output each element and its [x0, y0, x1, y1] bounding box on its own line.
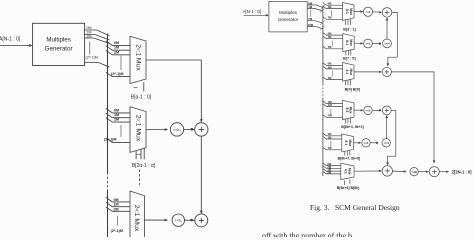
adder C — [382, 67, 391, 76]
svg-text:B[3 : 1]: B[3 : 1] — [343, 28, 356, 32]
mux B selects — [346, 50, 351, 56]
svg-text:<<1: <<1 — [363, 141, 369, 145]
wire mux D out — [354, 109, 362, 111]
wire mux C out to adder C — [354, 71, 380, 73]
svg-text:<<1: <<1 — [365, 10, 371, 14]
ellipsis generator outputs — [89, 42, 91, 55]
mux E selects — [345, 150, 350, 155]
svg-text:Z[2N-1 : 0]: Z[2N-1 : 0] — [452, 169, 473, 174]
ellipsis mux M1 inputs — [120, 56, 122, 71]
bus vertical — [107, 34, 109, 173]
svg-text:2M: 2M — [114, 118, 119, 122]
shifter <<8k — [410, 168, 418, 176]
shifter row E <<4 — [382, 139, 390, 147]
adder F1 — [382, 166, 392, 176]
wire shifter to adder D — [372, 109, 381, 111]
wire shifter to adder row A — [373, 11, 381, 13]
svg-text:Fig. 3. SCM General Design: Fig. 3. SCM General Design — [310, 203, 400, 212]
svg-text:off with the number of the b: off with the number of the b — [262, 231, 352, 237]
svg-text:Multiples: Multiples — [46, 37, 70, 44]
generator output wires right — [307, 5, 323, 8]
mux F selects — [345, 179, 350, 185]
wire mux B out — [354, 42, 361, 44]
mux C — [343, 63, 355, 82]
svg-text:Mux: Mux — [349, 107, 353, 114]
svg-text:2M: 2M — [87, 34, 92, 38]
wire shifter to adder A2 — [184, 128, 195, 130]
wire mux E out — [354, 142, 360, 144]
wire 0M from generator — [85, 30, 110, 36]
ellipsis mux M3 inputs — [116, 216, 118, 226]
svg-text:B[2α-1 : α]: B[2α-1 : α] — [132, 163, 156, 169]
svg-text:B[α-1 : 0]: B[α-1 : 0] — [131, 95, 152, 101]
wire to shifter <<4 row B — [372, 43, 381, 45]
svg-text:<<bn: <<bn — [174, 219, 182, 224]
shifter row B <<1 — [364, 39, 373, 48]
svg-text:Mux: Mux — [348, 140, 352, 147]
wire mux M1 output to adder A2 — [146, 60, 201, 121]
wire mux A out — [354, 10, 362, 12]
mux B — [343, 34, 354, 52]
wire adder A2 to adder A3 — [200, 136, 202, 212]
svg-text:8:1: 8:1 — [344, 140, 348, 145]
svg-text:2M: 2M — [114, 50, 119, 54]
adder D — [382, 106, 391, 115]
svg-text:8:1: 8:1 — [345, 40, 349, 45]
svg-text:(2α-1)M: (2α-1)M — [86, 55, 98, 60]
wire mux M3 output — [145, 219, 167, 221]
mux F taps — [323, 163, 341, 165]
svg-text:B[8k+3, 8k+1]: B[8k+3, 8k+1] — [341, 125, 364, 129]
svg-text:4:1: 4:1 — [343, 169, 347, 174]
svg-text:<<1: <<1 — [365, 42, 371, 46]
svg-text:<<b1: <<b1 — [173, 128, 181, 133]
wire adder D out to adder F1 — [388, 110, 396, 163]
wire to shifter <<4 row E — [370, 142, 378, 144]
svg-text:8:1: 8:1 — [345, 9, 349, 14]
wire 2M from generator — [85, 38, 110, 44]
svg-text:Mux: Mux — [348, 168, 352, 175]
svg-text:(2α-1)M: (2α-1)M — [111, 72, 123, 76]
mux A — [343, 2, 355, 20]
wire shifter to adder A3 — [185, 219, 195, 221]
shifter <<bn — [172, 214, 184, 226]
svg-text:<<1: <<1 — [365, 108, 371, 112]
svg-text:0M: 0M — [114, 198, 119, 202]
svg-text:B[8k+7, 8k+5]: B[8k+7, 8k+5] — [338, 156, 361, 160]
wire shifter to adder F2 — [418, 171, 427, 173]
mux B taps — [323, 33, 343, 36]
svg-text:(2α-1)M: (2α-1)M — [111, 229, 123, 233]
svg-text:2α:1 Mux: 2α:1 Mux — [134, 44, 141, 71]
svg-text:1M: 1M — [114, 46, 119, 50]
mux D selects — [345, 118, 350, 124]
svg-text:B[4] B[0]: B[4] B[0] — [345, 88, 361, 92]
svg-text:Generator: Generator — [45, 46, 73, 53]
svg-text:Mux: Mux — [349, 69, 353, 76]
svg-text:Mux: Mux — [349, 39, 353, 46]
mux E — [342, 134, 354, 152]
wire mux F out to adder F1 — [354, 170, 380, 172]
ellipsis generator right — [310, 10, 312, 17]
svg-text:A[N-1 : 0]: A[N-1 : 0] — [0, 37, 21, 43]
mux M1 2^a:1 — [130, 36, 146, 83]
svg-text:0M: 0M — [87, 26, 92, 30]
svg-text:B[8k+4] B[8k]: B[8k+4] B[8k] — [337, 186, 359, 190]
svg-text:<<8k: <<8k — [411, 170, 418, 174]
svg-text:Mux: Mux — [349, 8, 353, 15]
mux M3 input taps — [106, 197, 130, 202]
wire output Z — [439, 171, 447, 173]
shifter <<b1 — [170, 123, 183, 136]
wire mux M2 output — [146, 129, 166, 131]
bus slashes right — [320, 5, 325, 30]
svg-text:B[7 : 5]: B[7 : 5] — [343, 56, 356, 60]
shifter row B <<4 — [383, 39, 392, 48]
svg-text:<<4: <<4 — [384, 42, 390, 46]
mux C selects — [346, 80, 351, 86]
mux A selects — [346, 19, 351, 25]
wire input A right — [244, 14, 267, 16]
mux D taps — [323, 101, 343, 104]
mux D — [342, 100, 354, 119]
adder A — [382, 8, 392, 18]
svg-text:Multiples: Multiples — [279, 10, 298, 15]
mux A taps — [323, 3, 343, 6]
wire (2^a-1)M from generator — [85, 63, 110, 68]
bus vertical right — [322, 6, 324, 85]
mux E taps — [323, 133, 342, 136]
mux M2 input taps — [106, 108, 130, 113]
block Multiples Generator — [33, 23, 85, 65]
mux C taps — [323, 63, 343, 66]
svg-text:0M: 0M — [114, 41, 119, 45]
mux F — [341, 163, 354, 180]
shifter row E <<1 — [362, 139, 370, 147]
shifter row D <<1 — [364, 106, 372, 114]
svg-text:2α:1 Mux: 2α:1 Mux — [134, 115, 141, 142]
svg-text:2M: 2M — [114, 207, 119, 211]
svg-text:0M: 0M — [114, 108, 119, 112]
svg-text:2α:1 Mux: 2α:1 Mux — [133, 205, 140, 232]
svg-text:Generator: Generator — [278, 17, 299, 22]
svg-text:8:1: 8:1 — [345, 108, 349, 113]
mux M1 input taps — [106, 41, 130, 46]
adder A2 — [195, 123, 208, 136]
mux M3 2^a:1 — [130, 191, 145, 240]
wire 1M from generator — [85, 35, 110, 41]
mux M2 2^a:1 — [130, 107, 146, 153]
ellipsis mux M2 inputs — [120, 125, 122, 137]
wire adder F1 to shifter 8k — [393, 170, 405, 172]
wire adder C out to adder F2 — [391, 72, 434, 162]
wire adder A out to adder C — [388, 12, 397, 64]
svg-text:4:1: 4:1 — [345, 69, 349, 74]
svg-text:A[N-1 : 0]: A[N-1 : 0] — [243, 9, 262, 14]
select dash continuation — [139, 170, 141, 186]
block Multiples Generator right — [269, 2, 307, 32]
shifter row A <<1 — [363, 7, 372, 16]
mux M2 select wires — [135, 151, 137, 160]
svg-text:<<4: <<4 — [384, 141, 390, 145]
wire row E up into adder D — [385, 117, 387, 139]
adder A3 — [195, 214, 208, 227]
wire row B up into adder A — [386, 19, 388, 39]
svg-text:1M: 1M — [114, 203, 119, 207]
svg-text:1M: 1M — [114, 113, 119, 117]
svg-text:(2α-1)M: (2α-1)M — [104, 138, 116, 142]
wire input A — [0, 45, 30, 47]
adder F2 — [429, 167, 439, 177]
mux M1 select wire — [143, 82, 145, 91]
